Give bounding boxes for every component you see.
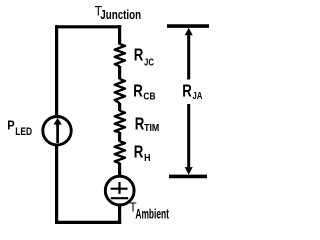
voltage source T_Ambient: circle [105,176,134,205]
svg-text:LED: LED [15,126,32,138]
wire: bottom horizontal (T_Ambient net) [55,221,121,224]
dimension arrow R_JA: bottom arrowhead [185,167,193,175]
resistor R_TIM (zigzag) [115,111,125,133]
svg-text:R: R [134,46,144,65]
svg-text:R: R [134,143,144,162]
current source P_LED: arrow head [54,118,62,125]
wire: left vertical lower (current source to bottom wire) [55,146,58,225]
svg-text:H: H [144,153,150,165]
dimension arrow R_JA: bottom bar [169,175,207,179]
resistor R_H (zigzag) [115,141,125,163]
svg-text:P: P [7,118,14,133]
svg-text:JC: JC [144,56,154,67]
dimension arrow R_JA: top bar [167,24,209,28]
dimension arrow R_JA: upper shaft [187,33,190,80]
svg-text:Junction: Junction [100,9,141,23]
wire: stub between R_H and voltage source [118,163,121,177]
dimension arrow R_JA: lower shaft [187,104,190,170]
wire: left vertical upper (top wire to current source) [55,25,58,116]
resistor R_CB (zigzag) [115,79,125,103]
resistor R_JC (zigzag) [115,44,125,66]
wire: right vertical upper (top wire to R_JC) [118,25,121,44]
wire: stub voltage source to bottom wire [118,205,121,224]
svg-text:TIM: TIM [144,123,159,135]
voltage source: plus sign [111,182,128,194]
svg-text:CB: CB [143,91,155,103]
svg-text:R: R [182,82,192,101]
wire: top horizontal (T_Junction net) [55,25,121,28]
voltage source: minus sign [111,197,128,199]
current source P_LED: arrow shaft [56,124,59,144]
svg-text:Ambient: Ambient [135,208,169,222]
svg-text:JA: JA [193,90,203,101]
svg-text:R: R [133,82,143,101]
dimension arrow R_JA: top arrowhead [185,28,193,36]
current source P_LED: circle [43,117,71,145]
wire: stub between R_TIM and R_H [118,132,121,142]
svg-text:R: R [135,115,145,134]
wire: stub between R_CB and R_TIM [118,103,121,111]
wire: stub between R_JC and R_CB [118,66,121,79]
